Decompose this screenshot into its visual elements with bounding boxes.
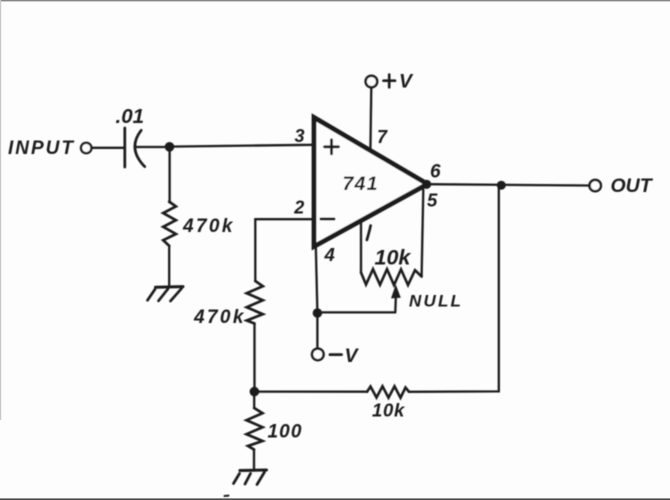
svg-text:6: 6 (430, 161, 441, 182)
node at op-amp apex (422, 180, 431, 189)
svg-text:5: 5 (427, 189, 438, 210)
wire input terminal to capacitor (92, 147, 124, 149)
-V terminal (312, 349, 324, 361)
svg-text:741: 741 (343, 173, 379, 195)
wire R4 to ground (253, 450, 255, 470)
svg-text:NULL: NULL (409, 291, 463, 310)
wire +V terminal down to pin 7 (369, 88, 372, 150)
svg-text:470k: 470k (193, 307, 246, 328)
svg-text:100: 100 (268, 421, 303, 442)
node B (feedback node) (250, 387, 260, 397)
wire node D to wiper arrow (317, 311, 395, 313)
wire R3 right then up to output node (409, 187, 499, 392)
+V terminal (366, 76, 378, 88)
svg-text:2: 2 (293, 198, 304, 218)
stray mark (225, 495, 229, 497)
wire node D to -V terminal (316, 318, 318, 349)
wire node A down to R1 (168, 147, 170, 203)
svg-text:.01: .01 (116, 105, 145, 128)
svg-text:470k: 470k (182, 216, 235, 237)
resistor R4 100 (247, 408, 263, 450)
svg-text:3: 3 (295, 126, 305, 146)
wire pin 2 to left (255, 218, 311, 220)
svg-text:V: V (399, 71, 414, 93)
op-amp U1 741 triangle (314, 118, 428, 247)
wire op-amp output to OUT terminal (427, 184, 589, 185)
svg-text:10k: 10k (375, 245, 412, 269)
capacitor C1 (125, 128, 145, 167)
node D (-V node) (313, 308, 322, 317)
svg-text:OUT: OUT (611, 175, 654, 197)
node C (output node) (497, 181, 506, 190)
wire node B to R3 (259, 390, 367, 392)
-V label (330, 353, 342, 356)
svg-text:7: 7 (377, 127, 388, 147)
wire capacitor to input node (136, 146, 165, 148)
wiper arrowhead (391, 285, 401, 299)
non-inverting + marker (325, 140, 339, 154)
resistor R3 10k (feedback) (367, 386, 409, 397)
svg-text:INPUT: INPUT (8, 138, 75, 159)
wire down to R2 (254, 219, 256, 281)
OUT terminal (590, 180, 601, 191)
svg-text:V: V (345, 345, 360, 367)
INPUT terminal (81, 143, 91, 153)
wire pin 1 down to potentiometer (360, 222, 362, 272)
inverting - marker (321, 218, 334, 221)
svg-text:4: 4 (324, 244, 335, 265)
wire node B down to R4 (253, 395, 255, 408)
wire node A to op-amp pin 3 (170, 145, 314, 147)
node A (input node) (165, 142, 175, 152)
resistor R2 470k (247, 281, 263, 324)
svg-text:10k: 10k (372, 400, 406, 421)
pin 1 label (367, 226, 371, 240)
resistor R1 470k (163, 202, 176, 246)
wire pin 5 down to potentiometer (422, 190, 424, 277)
wire R1 to ground (168, 246, 170, 287)
potentiometer R5 10k (361, 269, 422, 285)
wire pin 4 down to node D (316, 246, 318, 309)
wiper arrow shaft (394, 298, 397, 313)
wire R2 to node B (253, 324, 255, 389)
+V label (384, 75, 396, 88)
ground (below R4) (234, 470, 267, 485)
ground (below R1) (148, 287, 184, 301)
